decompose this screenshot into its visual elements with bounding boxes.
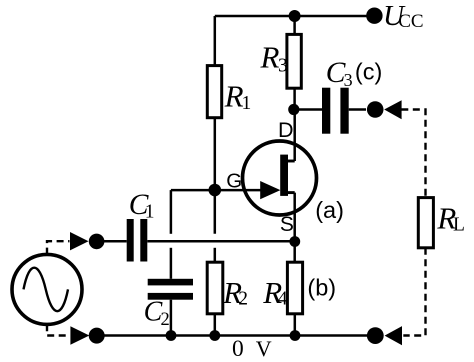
wire dashed source bottom to rail (47, 324, 70, 335)
capacitor C3 (322, 88, 349, 134)
wire C2 top lead upper part (170, 190, 173, 234)
svg-text:G: G (226, 170, 242, 193)
node bottom right terminal dot (367, 327, 384, 344)
resistor R4 (287, 262, 302, 314)
wire R2 bottom lead (214, 314, 217, 336)
label C2 (144, 297, 170, 330)
svg-text:(b): (b) (307, 275, 336, 301)
svg-text:0: 0 (232, 336, 244, 362)
svg-text:4: 4 (278, 289, 288, 310)
wire R3 top lead (293, 16, 296, 34)
svg-text:D: D (278, 118, 294, 142)
wire source vertical down to R4 (293, 193, 296, 263)
wire C2 top lead below crossover (170, 248, 173, 279)
wire drain tap (283, 160, 295, 163)
node R2 rail junction dot (209, 330, 220, 341)
wire R1 upper lead (214, 16, 217, 66)
label RL (436, 201, 465, 236)
svg-text:R: R (260, 39, 280, 74)
label R3 (260, 39, 288, 76)
signal source circle (12, 254, 82, 324)
node junction dot top of R3 (289, 10, 301, 22)
label R1 (224, 78, 252, 114)
label C3 (326, 57, 353, 90)
wire dashed RL bottom to rail (403, 248, 425, 336)
input arrow top pointing right (70, 232, 89, 250)
output arrow pointing left (384, 100, 401, 119)
svg-text:1: 1 (145, 201, 155, 222)
label R4 (262, 275, 288, 310)
resistor R1 (207, 66, 221, 118)
resistor RL (418, 198, 433, 248)
resistor R2 (207, 262, 223, 314)
signal source sine wave (24, 268, 69, 312)
transistor gate arrow (260, 181, 280, 199)
wire C1 to source node (147, 240, 294, 243)
node gate junction dot (209, 184, 222, 197)
svg-text:V: V (256, 336, 272, 361)
node input terminal dot (89, 234, 105, 250)
input arrow bottom pointing right (70, 326, 89, 344)
wire drain vertical (293, 110, 296, 162)
wire dashed source top to input (47, 241, 70, 254)
wire source tap (283, 191, 295, 194)
node bottom left terminal dot (89, 328, 105, 344)
wire input dot to C1 (97, 240, 127, 243)
node drain junction dot (288, 104, 299, 115)
wire crossover hop to R2 top (214, 248, 217, 262)
wire gate lead to transistor (215, 189, 263, 192)
node source junction dot (289, 236, 300, 247)
wire drain to C3 (295, 108, 322, 111)
capacitor C2 (148, 279, 193, 300)
svg-text:(c): (c) (355, 58, 382, 84)
node Ucc terminal dot (366, 8, 382, 24)
capacitor C1 (127, 219, 148, 262)
label Ucc (383, 0, 424, 32)
wire R1 lower lead down to crossover (214, 118, 217, 234)
svg-text:2: 2 (238, 289, 248, 310)
wire C2 bottom lead (170, 300, 173, 336)
svg-text:S: S (280, 213, 294, 236)
svg-text:L: L (453, 214, 465, 235)
node output terminal dot (367, 101, 384, 118)
svg-text:3: 3 (344, 70, 353, 90)
wire gate stub left to C2 branch (171, 189, 215, 192)
wire bottom ground rail (97, 334, 376, 337)
label 0 V (232, 336, 272, 362)
label R2 (222, 275, 248, 310)
svg-text:(a): (a) (315, 197, 344, 223)
wire C3 to output dot (349, 108, 366, 111)
label C1 (129, 189, 155, 223)
wire dashed output to RL top (401, 110, 425, 198)
wire R3 bottom lead (293, 88, 296, 109)
transistor Q1 JFET circle (243, 141, 317, 215)
svg-text:3: 3 (278, 56, 288, 77)
svg-text:1: 1 (242, 93, 252, 114)
resistor R3 (287, 34, 301, 88)
wire R4 bottom lead (294, 314, 297, 336)
node R4 rail junction dot (290, 330, 301, 341)
bottom right arrow pointing left (385, 326, 402, 345)
svg-text:CC: CC (398, 11, 423, 32)
node C2 rail junction dot (166, 330, 177, 341)
transistor channel bar (280, 155, 288, 196)
wire top supply rail (215, 15, 375, 18)
svg-text:2: 2 (161, 310, 170, 330)
